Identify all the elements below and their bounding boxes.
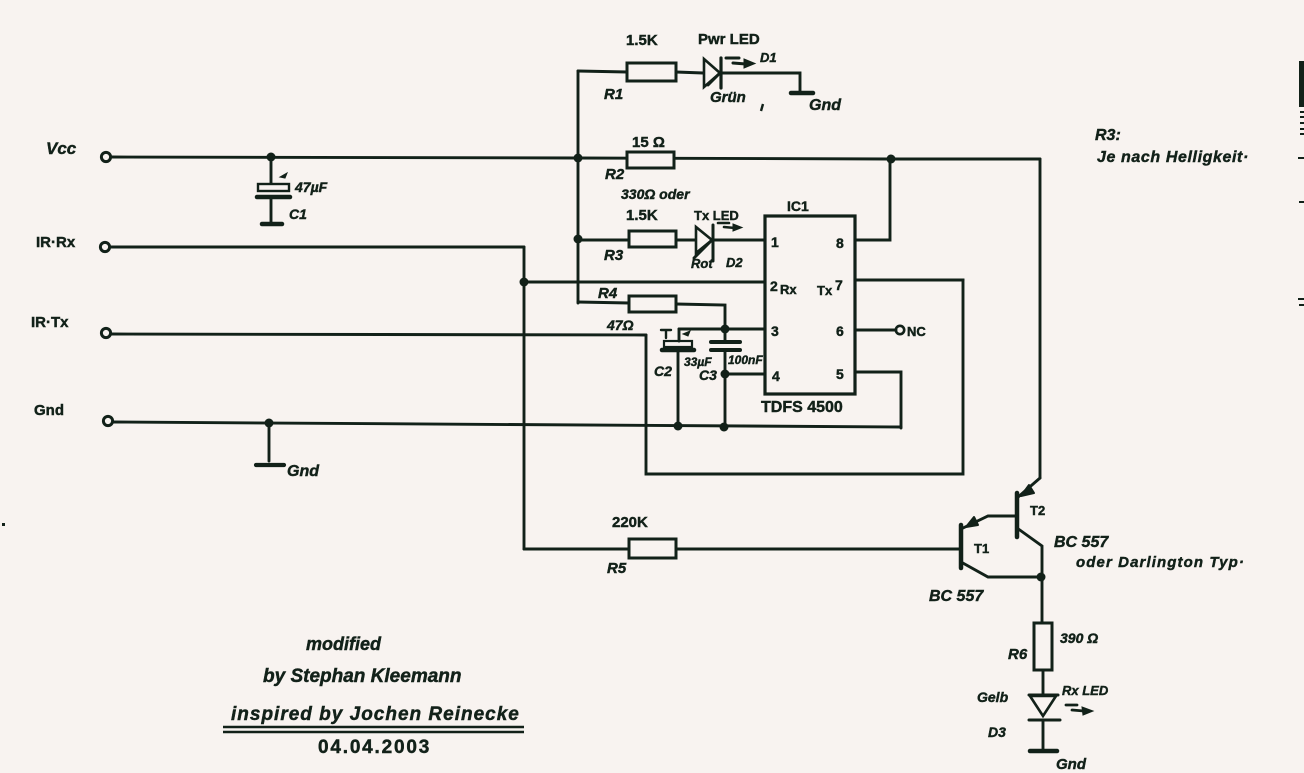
wire R1 branch left [578, 71, 627, 72]
wire pin8 to Vcc [856, 160, 890, 240]
svg-text:47µF: 47µF [294, 179, 328, 195]
svg-text:R6: R6 [1008, 646, 1028, 663]
wire R4 to pin3 net [676, 304, 725, 329]
node IR-Tx terminal [101, 328, 110, 337]
wire to R6 [1041, 577, 1044, 623]
wire IR-Tx horizontal [111, 334, 646, 335]
junction gnd symbol tap [265, 419, 274, 428]
underline [223, 727, 524, 732]
junction C3 pin4 tap [721, 370, 730, 379]
junction C1 tap [267, 153, 276, 162]
svg-text:TDFS 4500: TDFS 4500 [761, 399, 843, 416]
svg-text:by Stephan Kleemann: by Stephan Kleemann [263, 666, 462, 687]
ground symbol D1 [791, 91, 813, 96]
wire pin6 NC [856, 329, 896, 332]
wire IR-Rx vertical down to R5 [523, 247, 526, 549]
svg-text:Tx LED: Tx LED [694, 208, 739, 223]
node IR-Rx terminal [100, 242, 109, 251]
svg-text:8: 8 [836, 235, 844, 251]
svg-text:6: 6 [836, 323, 844, 339]
svg-text:1: 1 [771, 234, 779, 250]
wire R5 branch [524, 548, 629, 551]
diode D3 yellow LED [1029, 695, 1060, 749]
capacitor C3 100nF [711, 329, 740, 427]
junction C3 gnd [720, 423, 729, 432]
transistor T2 BC557 [1017, 478, 1042, 577]
svg-text:Vcc: Vcc [46, 139, 77, 158]
node Gnd terminal [103, 416, 112, 425]
svg-text:100nF: 100nF [728, 353, 763, 367]
svg-text:Rot: Rot [691, 256, 713, 271]
node Vcc terminal [101, 152, 110, 161]
svg-text:5: 5 [836, 366, 844, 382]
wire R3 branch left [578, 239, 629, 242]
wire left Vcc feeder rail [577, 71, 580, 303]
svg-text:Rx LED: Rx LED [1062, 683, 1109, 698]
svg-text:3: 3 [771, 323, 779, 339]
capacitor C1 47uF electrolytic [257, 157, 290, 224]
junction R4/C3 tap [721, 325, 730, 334]
svg-text:D2: D2 [726, 255, 743, 270]
svg-text:T2: T2 [1030, 503, 1045, 518]
svg-text:IC1: IC1 [787, 198, 809, 214]
LED D1 arrow [726, 58, 755, 68]
wire R6 to D3 [1042, 670, 1045, 695]
wire D1 to gnd [722, 73, 800, 92]
LED D3 arrow [1066, 705, 1093, 715]
svg-text:D1: D1 [760, 50, 777, 65]
resistor R1 [627, 63, 676, 81]
svg-text:47Ω: 47Ω [606, 317, 634, 333]
svg-text:R5: R5 [607, 560, 627, 577]
svg-text:Rx: Rx [780, 282, 797, 297]
resistor R5 [629, 539, 676, 558]
LED D2 arrow [718, 223, 742, 231]
svg-text:15 Ω: 15 Ω [632, 134, 665, 151]
resistor R3 [629, 231, 676, 247]
svg-text:Tx: Tx [817, 283, 833, 298]
transistor T1 BC557 [961, 516, 1040, 577]
svg-text:R3:: R3: [1095, 127, 1121, 144]
wire R5 to T1 base [676, 548, 960, 551]
ground symbol below rail [268, 423, 271, 461]
svg-text:oder Darlington Typ·: oder Darlington Typ· [1076, 554, 1245, 571]
IC U1 TDFS4500 body [765, 216, 855, 394]
junction pin2 tap [520, 278, 529, 287]
wire IR-Tx loop to pin7 [646, 280, 963, 474]
svg-text:Gnd: Gnd [287, 463, 320, 480]
svg-text:T1: T1 [974, 541, 989, 556]
svg-text:Pwr LED: Pwr LED [698, 31, 760, 48]
svg-text:R1: R1 [604, 86, 623, 103]
svg-text:Gnd: Gnd [1056, 756, 1087, 773]
diode D1 green LED [704, 58, 721, 88]
svg-text:IR·Rx: IR·Rx [36, 234, 76, 251]
svg-text:Gnd: Gnd [34, 402, 64, 419]
wire Gnd rail [113, 422, 901, 427]
scan artifacts right edge [2, 61, 1304, 526]
wire Vcc horizontal rail [111, 157, 1040, 159]
wire R3 to D2 [676, 239, 695, 242]
wire pin2 Rx [524, 281, 765, 284]
svg-text:BC 557: BC 557 [1054, 534, 1109, 551]
capacitor C2 33uF electrolytic [661, 329, 694, 427]
svg-text:R2: R2 [605, 166, 625, 183]
node NC circle [896, 326, 904, 334]
wire R4 branch left [578, 302, 629, 303]
svg-text:7: 7 [835, 277, 843, 293]
junction T1/T2 collectors [1037, 573, 1046, 582]
resistor R4 [629, 296, 676, 312]
svg-text:1.5K: 1.5K [626, 32, 658, 49]
svg-text:330Ω oder: 330Ω oder [621, 186, 691, 202]
svg-text:Je nach Helligkeit·: Je nach Helligkeit· [1097, 149, 1249, 166]
diode D2 red LED [694, 225, 713, 261]
svg-text:2: 2 [770, 278, 778, 294]
svg-text:4: 4 [772, 368, 780, 384]
svg-text:1.5K: 1.5K [626, 207, 658, 224]
wire pin3 net horizontal [679, 328, 765, 331]
svg-text:R4: R4 [598, 285, 618, 302]
svg-text:Gelb: Gelb [977, 689, 1009, 705]
svg-text:390 Ω: 390 Ω [1060, 630, 1098, 646]
svg-text:R3: R3 [604, 247, 624, 264]
wire pin7 stub [856, 279, 963, 282]
wire pin5 to gnd [856, 372, 901, 428]
svg-text:C1: C1 [289, 206, 307, 222]
svg-text:Grün: Grün [710, 89, 746, 106]
svg-text:04.04.2003: 04.04.2003 [318, 737, 431, 758]
svg-text:inspired by Jochen Reinecke: inspired by Jochen Reinecke [231, 704, 520, 725]
wire IR-Rx horizontal [110, 246, 524, 249]
resistor R2 [627, 152, 674, 168]
wire R1 to D1 [676, 72, 703, 73]
svg-text:IR·Tx: IR·Tx [31, 314, 69, 331]
junction left rail tap [574, 154, 583, 163]
svg-text:Gnd: Gnd [809, 97, 842, 114]
svg-text:220K: 220K [612, 514, 648, 531]
svg-text:D3: D3 [988, 724, 1006, 740]
junction C2 gnd [674, 422, 683, 431]
wire D2 to pin1 [714, 239, 765, 242]
svg-text:modified: modified [306, 634, 382, 654]
svg-text:C2: C2 [654, 363, 672, 379]
svg-text:BC 557: BC 557 [929, 588, 984, 605]
junction pin8 tap [887, 155, 896, 164]
svg-text:NC: NC [907, 324, 926, 339]
ground symbol D3 [1030, 749, 1057, 754]
junction R3 tap [574, 235, 583, 244]
wire Vcc right vertical to T2 emitter [1039, 159, 1042, 478]
svg-text:C3: C3 [699, 367, 717, 383]
wire pin4 [725, 373, 765, 376]
resistor R6 390ohm [1034, 623, 1052, 670]
